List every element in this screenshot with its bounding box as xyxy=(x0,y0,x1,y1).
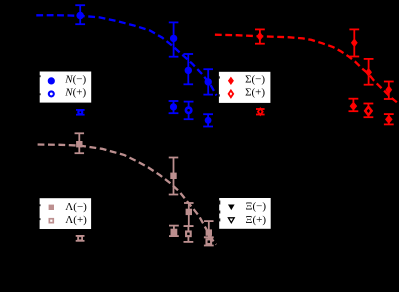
N(+) low point 1 xyxy=(76,110,85,115)
svg-text:N(−): N(−) xyxy=(64,73,86,85)
Sigma(-) data point 2 with error bar xyxy=(349,29,359,56)
Sigma(-) data point 1 with error bar xyxy=(255,29,265,43)
Sigma low point 4 xyxy=(384,114,394,124)
Xi legend box xyxy=(219,198,271,229)
Lambda legend markers xyxy=(49,205,54,210)
Sigma legend labels xyxy=(245,74,265,86)
N(-) data point 3 with error bar xyxy=(184,54,194,84)
N low point 2 xyxy=(169,101,179,113)
Lambda(+) low point 3 xyxy=(184,226,194,242)
blue dashed fit curve (N panel) xyxy=(36,15,216,95)
Sigma low point 2 xyxy=(349,99,359,112)
Lambda(+) low point 4 xyxy=(204,237,214,245)
Sigma(+) low point 1 xyxy=(256,109,265,115)
svg-text:Σ(−): Σ(−) xyxy=(245,74,265,86)
Xi legend markers xyxy=(228,205,235,211)
svg-text:Λ(+): Λ(+) xyxy=(65,214,87,226)
svg-text:Σ(+): Σ(+) xyxy=(245,87,265,99)
N legend box xyxy=(40,72,91,103)
N legend labels xyxy=(64,73,86,85)
N(-) data point 2 with error bar xyxy=(169,22,179,56)
N(-) data point 4 with error bar xyxy=(203,69,213,94)
N low point 4 xyxy=(203,114,213,126)
red dashed fit curve (Sigma panel) xyxy=(215,35,399,105)
Lambda(-) data point 1 with error bar xyxy=(75,133,85,153)
Sigma(-) data point 4 with error bar xyxy=(384,82,394,100)
Lambda(-) data point 4 with error bar xyxy=(204,221,214,237)
Lambda(-) data point 2 with error bar xyxy=(169,158,179,195)
svg-text:N(+): N(+) xyxy=(64,86,86,98)
Sigma legend markers xyxy=(228,77,234,85)
svg-text:Ξ(+): Ξ(+) xyxy=(245,214,266,226)
N legend markers xyxy=(48,77,55,84)
Lambda low point 2 xyxy=(169,226,179,237)
Lambda(+) low point 1 xyxy=(76,236,85,241)
svg-text:Ξ(−): Ξ(−) xyxy=(245,201,266,213)
Xi legend labels xyxy=(245,201,266,213)
Sigma legend box xyxy=(219,72,271,103)
rosybrown dashed fit curve (Lambda panel) xyxy=(38,145,217,245)
N(-) data point 1 with error bar xyxy=(75,5,85,24)
Lambda(-) data point 3 with error bar xyxy=(184,203,194,226)
Lambda legend labels xyxy=(65,201,87,213)
Sigma(-) data point 3 with error bar xyxy=(364,59,374,85)
Lambda legend box xyxy=(40,198,92,229)
Sigma(+) low point 3 xyxy=(364,104,374,118)
N(+) low point 3 xyxy=(184,102,194,120)
svg-text:Λ(−): Λ(−) xyxy=(65,201,87,213)
